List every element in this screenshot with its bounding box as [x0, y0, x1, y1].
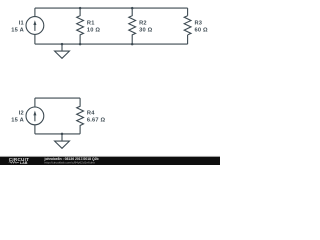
node junction dots top net	[79, 7, 134, 10]
label R4 6.67 Ohm	[87, 111, 106, 124]
node junction dots bottom net	[61, 43, 134, 46]
wire left vertical I2	[34, 98, 36, 134]
logo squiggle	[9, 161, 19, 163]
svg-text:60 Ω: 60 Ω	[195, 28, 209, 34]
wire R3 right side verticals	[187, 8, 189, 44]
svg-text:http://circuitlab.com/c/84y62d: http://circuitlab.com/c/84y62d1e6uhb	[45, 161, 96, 165]
current source I2	[26, 107, 44, 125]
svg-text:R1: R1	[87, 21, 95, 27]
node junction dot bottom circuit	[61, 133, 64, 136]
svg-text:R4: R4	[87, 111, 95, 117]
resistor R2	[129, 8, 136, 44]
footer bar	[0, 156, 220, 157]
svg-text:R2: R2	[139, 21, 147, 27]
resistor R3	[184, 16, 191, 35]
svg-text:30 Ω: 30 Ω	[139, 28, 153, 34]
svg-text:15 A: 15 A	[11, 118, 24, 124]
resistor R1	[77, 8, 84, 44]
svg-text:R3: R3	[195, 21, 203, 27]
label R2 30 Ohm	[139, 21, 153, 34]
ground (bottom circuit)	[55, 134, 70, 148]
svg-text:15 A: 15 A	[11, 28, 24, 34]
wire left vertical I1	[34, 8, 36, 44]
label I2	[11, 111, 24, 124]
svg-text:LAB: LAB	[20, 161, 28, 165]
svg-text:I1: I1	[19, 21, 24, 27]
wire top net (top circuit, y=8)	[35, 7, 188, 9]
wire top net (bottom circuit, y=98)	[35, 97, 80, 99]
svg-text:I2: I2	[19, 111, 24, 117]
label I1	[11, 21, 24, 34]
wire bottom net (top circuit, y=44)	[35, 43, 188, 45]
current source I1	[26, 17, 44, 35]
ground (top circuit)	[55, 44, 70, 58]
label R3 60 Ohm	[195, 21, 209, 34]
resistor R4	[77, 98, 84, 134]
label R1 10 Ohm	[87, 21, 101, 34]
CircuitLab logo	[9, 157, 29, 165]
wire bottom net (bottom circuit, y=133.6)	[35, 133, 80, 135]
svg-text:10 Ω: 10 Ω	[87, 28, 101, 34]
svg-text:6.67 Ω: 6.67 Ω	[87, 118, 106, 124]
